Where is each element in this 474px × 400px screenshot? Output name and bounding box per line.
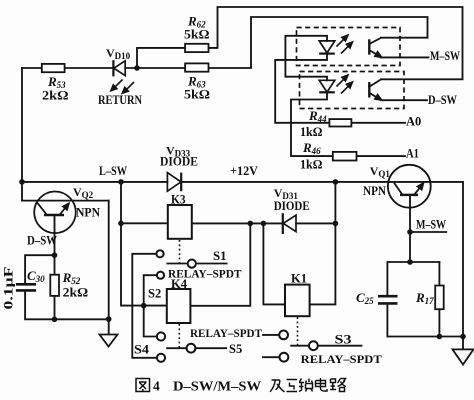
diode VD10 (LED RETURN): [113, 60, 125, 76]
wire: S3 blade and pole lead: [291, 345, 361, 347]
svg-text:S1: S1: [213, 249, 227, 263]
resistor R44: [329, 119, 351, 126]
svg-text:4: 4: [153, 379, 160, 394]
svg-text:R17: R17: [415, 290, 434, 306]
light arrows of optocoupler U1: [337, 35, 353, 54]
optocoupler U2 dashed box (D-SW): [300, 72, 405, 109]
switch S3 contacts: [279, 331, 318, 362]
svg-text:RELAY–SPDT: RELAY–SPDT: [190, 326, 262, 340]
wire: K4 right lead loop: [190, 223, 250, 305]
svg-text:S4: S4: [134, 343, 150, 357]
wire: opto LED1 anode loop to LED2 anode: [285, 36, 327, 81]
wire: V01 base chord and right emitter rail down to ground rail: [335, 182, 463, 337]
wire: relay rail K3 right to VD31: [190, 222, 282, 224]
svg-text:RELAY–SPDT: RELAY–SPDT: [301, 352, 382, 366]
svg-text:K3: K3: [171, 193, 186, 207]
wire: opto1 emitter lead to M-SW: [381, 56, 429, 58]
svg-text:M–SW: M–SW: [416, 218, 446, 232]
caption 图4 D-SW/M-SW 及互锁电路: [136, 379, 150, 392]
wire: V01 base bar lead down through M-SW node to C25/R17 rail: [409, 195, 411, 262]
svg-text:K1: K1: [291, 272, 307, 286]
svg-text:D–SW: D–SW: [428, 93, 457, 107]
relay coil K1: [285, 285, 310, 317]
relay coil K3: [168, 205, 192, 239]
switch S4/S5 contacts: [157, 332, 196, 362]
svg-text:RETURN: RETURN: [98, 93, 142, 107]
svg-text:DIODE: DIODE: [160, 155, 198, 169]
svg-text:DIODE: DIODE: [274, 199, 310, 213]
wire: R44 right lead to A0: [351, 122, 405, 124]
wire: node to C30 top: [25, 255, 54, 284]
svg-text:5kΩ: 5kΩ: [184, 27, 210, 42]
hanzi 图: [136, 379, 150, 392]
svg-text:2kΩ: 2kΩ: [63, 285, 89, 300]
svg-text:RELAY–SPDT: RELAY–SPDT: [168, 267, 242, 281]
hanzi 锁: [299, 379, 313, 392]
svg-text:R44: R44: [308, 108, 327, 124]
wire: C25 leads: [386, 262, 388, 337]
svg-text:S5: S5: [229, 342, 242, 356]
svg-text:S3: S3: [335, 333, 352, 347]
svg-text:2kΩ: 2kΩ: [42, 88, 69, 103]
wire: C30 bottom to ground bus: [25, 290, 109, 319]
wire: R63 right lead, second rail, drop to opto1 collector: [209, 17, 428, 68]
hanzi 及: [270, 380, 284, 392]
transistor VQ2: [22, 192, 109, 234]
svg-text:0.1µF: 0.1µF: [2, 266, 16, 310]
dashed actuation link K1 to S3: [297, 317, 299, 345]
wire: K3 left lead: [121, 222, 168, 224]
wire: R46 right lead to A1: [357, 155, 406, 157]
wire: S1 lower contact to S4 upper contact vertical: [144, 275, 157, 336]
ground symbol right: [453, 349, 474, 364]
wire: K1 right lead loop from +12V junction: [310, 182, 336, 305]
wire: V02 base lead down to node: [54, 215, 56, 255]
svg-text:D–SW/M–SW: D–SW/M–SW: [173, 379, 262, 394]
wire: left vertical rail from R53 down through L-SW rail to V02 collector chord: [21, 68, 23, 201]
svg-text:+12V: +12V: [230, 164, 258, 178]
light arrows of optocoupler U2: [337, 75, 353, 94]
resistor R52: [50, 275, 59, 296]
wire: C25/R17 top rail: [387, 261, 439, 263]
svg-text:1kΩ: 1kΩ: [300, 157, 323, 172]
transistor VQ1: [388, 165, 431, 208]
wire: V02 emitter chord to right vertical down to ground: [108, 201, 110, 335]
wire: R53 to VD10 diode: [65, 67, 114, 69]
ground symbol left: [100, 335, 118, 347]
dashed actuation link K3 to S1: [179, 240, 181, 263]
wire: S4 blade and S5 pole lead: [167, 347, 226, 349]
svg-text:VD10: VD10: [106, 46, 131, 61]
wire: K3 vertical feed and K4 left lead: [121, 182, 167, 306]
svg-text:5kΩ: 5kΩ: [184, 87, 210, 102]
svg-text:D–SW: D–SW: [27, 234, 57, 248]
wire: R17 leads: [438, 262, 440, 337]
wire: S3 throw stubs: [263, 335, 280, 357]
dashed actuation link K4 to S5: [178, 324, 180, 348]
svg-text:NPN: NPN: [76, 205, 101, 220]
resistor R53: [42, 64, 65, 72]
optocoupler U1 dashed box (M-SW): [297, 28, 401, 66]
hanzi 路: [330, 379, 346, 392]
wire: opto2 emitter lead to D-SW: [381, 99, 427, 101]
svg-text:1kΩ: 1kΩ: [300, 124, 323, 139]
switch S1 contacts: [156, 250, 196, 279]
svg-text:VQ2: VQ2: [73, 185, 94, 200]
svg-text:L–SW: L–SW: [99, 164, 127, 178]
wire: branch from junction up to R62: [137, 48, 185, 68]
RETURN arrows of VD10: [111, 80, 134, 94]
wire: opto LED1 cathode loop to R44: [275, 54, 329, 123]
resistor R17: [435, 286, 444, 310]
phototransistor of optocoupler U1: [369, 38, 381, 58]
wire: K1 left lead loop: [263, 223, 285, 304]
phototransistor of optocoupler U2: [369, 79, 381, 100]
wire: S1 blade and pole lead: [167, 263, 226, 265]
LED of optocoupler U1: [319, 41, 335, 54]
resistor R63: [185, 63, 208, 71]
svg-text:C25: C25: [356, 290, 374, 306]
hanzi 互: [287, 380, 298, 392]
svg-text:A1: A1: [406, 147, 419, 161]
svg-text:M–SW: M–SW: [430, 49, 460, 63]
svg-text:A0: A0: [406, 115, 421, 129]
LED of optocoupler U2: [319, 80, 335, 92]
svg-text:C30: C30: [27, 268, 45, 284]
wire: bottom rail to right ground: [387, 337, 463, 350]
resistor R62: [185, 44, 208, 52]
svg-text:R46: R46: [302, 140, 321, 156]
svg-text:S2: S2: [148, 287, 161, 301]
diode VD33: [167, 173, 181, 192]
relay coil K4: [167, 289, 191, 323]
wire: R52 leads: [54, 255, 56, 319]
hanzi 电: [316, 378, 328, 391]
capacitor C30: [16, 284, 36, 290]
resistor R46: [333, 152, 357, 161]
wire: L-SW rail segment: [22, 181, 167, 183]
wire: +12V rail segment after VD33: [181, 181, 335, 183]
wire: S1 upper contact to S4 lower contact vertical: [132, 254, 157, 358]
wire: VD10 to junction and on to R63: [125, 67, 185, 69]
wire: opto LED2 cathode loop to R46: [291, 92, 333, 156]
wire: M-SW stub: [410, 231, 446, 233]
diode VD31: [283, 213, 296, 234]
wire: R62 right lead, top rail, right drop to opto2 collector: [209, 7, 463, 79]
wire: top row y=68 R53 left lead: [22, 67, 42, 69]
svg-text:NPN: NPN: [363, 183, 387, 198]
capacitor C25: [378, 296, 398, 303]
wire: relay rail VD31 to K1 vertical: [296, 222, 335, 224]
svg-text:VQ1: VQ1: [370, 164, 391, 179]
